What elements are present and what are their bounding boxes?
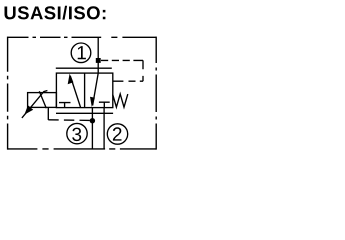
lower parallel line below valve body <box>56 112 113 114</box>
node junction square on port 1 line <box>96 58 101 63</box>
wire pilot vertical from solenoid chamber <box>47 108 49 120</box>
title USASI/ISO: <box>5 6 106 20</box>
valve body V1 outer rectangle <box>56 73 112 108</box>
solenoid slash <box>39 91 46 108</box>
solenoid box <box>28 93 57 108</box>
left position flow path arrow <box>70 76 80 108</box>
enclosure border top edge (dash-dot) <box>8 36 157 38</box>
enclosure border left edge (dash-dot) <box>7 37 9 150</box>
port label circle 2 <box>107 124 127 144</box>
wire port 2 vertical line <box>103 108 105 149</box>
enclosure border bottom edge (dash-dot) <box>8 148 157 150</box>
wire port 3 vertical line <box>91 108 93 149</box>
port label circle 3 <box>67 123 87 143</box>
valve position divider <box>84 73 86 108</box>
left position blocked port T <box>59 103 71 108</box>
proportional arrow <box>22 91 48 118</box>
wire pilot dashed horizontal to port 3 junction <box>48 119 90 122</box>
pin number 3 <box>72 128 81 142</box>
pin number 1 <box>78 46 86 59</box>
enclosure border right edge (dash-dot) <box>155 37 157 150</box>
pin number 2 <box>113 127 122 140</box>
port label circle 1 <box>71 43 91 63</box>
right position flow path arrow <box>93 73 99 105</box>
wire pilot dashed line from port 1 junction to spring end <box>101 60 143 81</box>
spring W <box>113 94 128 107</box>
right position blocked port T <box>99 102 110 107</box>
upper parallel line above valve body <box>56 67 112 69</box>
node junction dot on port 3 line <box>90 118 95 123</box>
wire port 1 vertical line <box>97 37 99 73</box>
